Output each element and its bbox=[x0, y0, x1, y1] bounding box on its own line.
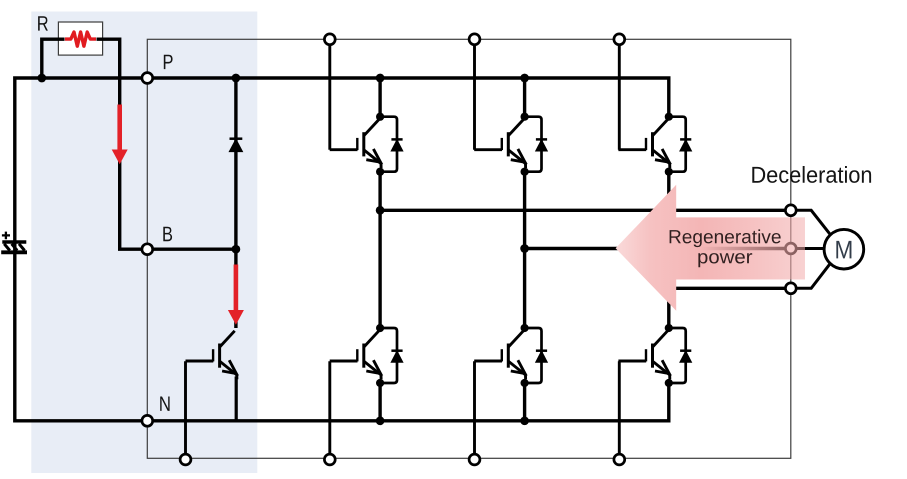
wire: motor lead W bbox=[791, 264, 830, 289]
junction dot N-leg2 bbox=[520, 416, 529, 425]
transistor Q7 (brake chopper IGBT) bbox=[186, 331, 237, 380]
resistor R1 red zigzag element bbox=[65, 32, 96, 46]
wire: leg1 midpoint bbox=[378, 172, 381, 328]
wire: chopper gate drop bbox=[184, 361, 187, 459]
gate terminal bottom leg3 bbox=[614, 454, 625, 465]
wire: phase V output bbox=[525, 247, 791, 250]
current arrow 1 (through resistor branch) bbox=[112, 105, 128, 165]
transistor Q2 (bottom leg1 IGBT with diode D2) bbox=[330, 324, 403, 387]
junction dot P-leg1 bbox=[376, 74, 385, 83]
wire: chopper collector B down bbox=[234, 249, 237, 328]
diode D7 (clamp diode on B branch) bbox=[229, 139, 242, 152]
resistor R1 enclosure bbox=[58, 22, 102, 55]
label R bbox=[38, 16, 48, 30]
wire: gate lead bottom leg1 bbox=[328, 361, 331, 459]
motor terminal W bbox=[785, 283, 796, 294]
current arrow 2 (through chopper) bbox=[228, 265, 244, 325]
wire: motor lead V bbox=[791, 247, 824, 250]
junction dot phase U tap bbox=[376, 206, 385, 215]
label power bbox=[698, 253, 752, 267]
node N terminal bbox=[142, 415, 153, 426]
gate terminal bottom leg2 bbox=[469, 454, 480, 465]
gate terminal top leg2 bbox=[469, 34, 480, 45]
regenerative power arrow bbox=[616, 185, 805, 311]
brake circuit highlight panel bbox=[31, 12, 257, 474]
junction dot P-left bbox=[37, 74, 46, 83]
wire: chopper emitter to N bbox=[235, 377, 238, 421]
motor M1 bbox=[824, 229, 864, 269]
junction dot P-diode branch bbox=[232, 74, 241, 83]
wire: brake resistor branch bbox=[42, 39, 65, 78]
gate terminal bottom leg1 bbox=[324, 454, 335, 465]
label Regenerative bbox=[670, 229, 781, 247]
wire: DC bus loop (P rail, left leg, N rail) bbox=[15, 78, 669, 421]
wire: leg1 collector drop bbox=[378, 78, 381, 117]
capacitor C1 (DC bus, polarized) bbox=[1, 232, 27, 253]
node P terminal bbox=[142, 73, 153, 84]
gate terminal top leg1 bbox=[324, 34, 335, 45]
junction dot P-leg2 bbox=[520, 74, 529, 83]
label P bbox=[164, 55, 173, 69]
transistor Q6 (bottom leg3 IGBT with diode D6) bbox=[618, 324, 691, 387]
wire: gate lead top leg2 bbox=[473, 39, 476, 149]
label M bbox=[836, 241, 851, 259]
wire: resistor to B node bbox=[97, 39, 236, 249]
wire: leg1 emitter to N bbox=[378, 383, 381, 421]
transistor Q5 (top leg3 IGBT with diode D5) bbox=[618, 113, 691, 176]
wire: phase U output bbox=[380, 209, 791, 212]
gate terminal chopper bbox=[180, 454, 191, 465]
junction dot phase V tap bbox=[520, 244, 529, 253]
wire: leg3 midpoint bbox=[667, 172, 670, 328]
motor terminal V bbox=[785, 243, 796, 254]
wire: gate lead bottom leg3 bbox=[618, 361, 621, 459]
node B terminal bbox=[142, 244, 153, 255]
wire: leg2 emitter to N bbox=[523, 383, 526, 421]
wire: leg2 midpoint bbox=[523, 172, 526, 328]
transistor Q4 (bottom leg2 IGBT with diode D4) bbox=[474, 324, 547, 387]
label Deceleration bbox=[752, 166, 871, 183]
transistor Q1 (top leg1 IGBT with diode D1) bbox=[330, 113, 403, 176]
wire: motor lead U bbox=[791, 210, 830, 234]
wire: gate lead top leg1 bbox=[328, 39, 331, 149]
wire: leg2 collector drop bbox=[523, 78, 526, 117]
inverter outline box bbox=[147, 39, 791, 458]
wire: phase W output bbox=[669, 287, 791, 290]
gate terminal top leg3 bbox=[614, 34, 625, 45]
transistor Q3 (top leg2 IGBT with diode D3) bbox=[474, 113, 547, 176]
label N bbox=[160, 397, 169, 411]
label B bbox=[163, 227, 172, 241]
wire: gate lead bottom leg2 bbox=[473, 361, 476, 459]
wire: gate lead top leg3 bbox=[618, 39, 621, 149]
wire: clamp diode branch P to B bbox=[234, 78, 237, 249]
motor terminal U bbox=[785, 205, 796, 216]
junction dot phase W tap bbox=[664, 284, 673, 293]
junction dot N-leg1 bbox=[376, 416, 385, 425]
junction dot B-chopper bbox=[232, 245, 241, 254]
